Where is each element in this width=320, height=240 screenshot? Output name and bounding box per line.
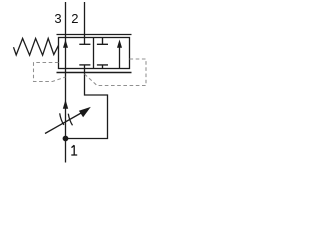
valve V1 envelope bbox=[59, 38, 130, 69]
blocked port T right-top bbox=[97, 38, 108, 45]
svg-text:2: 2 bbox=[71, 11, 78, 26]
orifice stroke right bbox=[68, 114, 72, 126]
blocked port T bar left-top bbox=[79, 43, 90, 45]
pilot line dashed left bbox=[34, 63, 66, 82]
blocked port T right-bottom bbox=[97, 65, 108, 69]
flow arrowhead left box bbox=[63, 40, 68, 48]
adjust arrowhead bbox=[79, 107, 91, 117]
wire port 2 vertical line bbox=[84, 2, 86, 44]
adjust arrow shaft bbox=[45, 113, 82, 134]
spring bbox=[14, 38, 59, 55]
flow arrowhead right box bbox=[117, 40, 122, 48]
flow arrow line right box bbox=[119, 47, 121, 69]
blocked port T left-bottom bbox=[79, 64, 90, 66]
svg-text:3: 3 bbox=[54, 11, 61, 26]
wire port 3 vertical main line bbox=[65, 2, 67, 163]
orifice stroke left bbox=[60, 113, 64, 125]
label 1 bbox=[71, 145, 77, 155]
wire feedback loop right bbox=[66, 65, 108, 139]
throttle arrowhead bbox=[63, 100, 68, 109]
junction dot bbox=[63, 136, 69, 142]
proportional line top bbox=[57, 34, 132, 36]
valve V1 divider bbox=[93, 38, 95, 69]
proportional line bottom bbox=[57, 72, 132, 74]
pilot line dashed right bbox=[85, 59, 147, 86]
